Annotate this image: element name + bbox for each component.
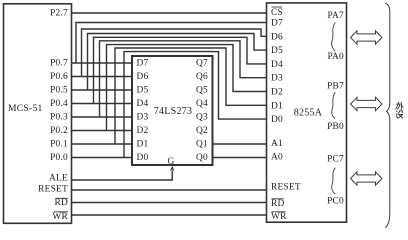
svg-text:D6: D6 [271, 32, 283, 42]
svg-text:RD: RD [271, 199, 285, 209]
svg-text:D5: D5 [271, 46, 283, 56]
wire data bus bit6 branch P0.6 to 8255A D6 [82, 29, 267, 77]
peripheral text she (Chinese) [396, 111, 403, 119]
wire data bus bit4 branch P0.4 to 8255A D4 [94, 37, 267, 103]
svg-text:A1: A1 [271, 139, 283, 149]
wire P0.4 to D4 (latch) [72, 103, 133, 105]
port C bidirectional bus arrow [351, 172, 383, 185]
svg-text:D4: D4 [137, 99, 149, 109]
svg-text:ALE: ALE [49, 174, 68, 184]
svg-text:Q4: Q4 [196, 99, 208, 109]
svg-text:P0.4: P0.4 [50, 99, 68, 109]
svg-text:D7: D7 [271, 19, 283, 29]
wire P2.7 to CS net [72, 12, 267, 14]
svg-text:Q7: Q7 [196, 59, 208, 69]
wire P0.7 to D7 (latch) [72, 62, 133, 64]
wire P0.0 to D0 (latch) [72, 157, 133, 159]
svg-text:D5: D5 [137, 86, 149, 96]
svg-text:Q3: Q3 [196, 113, 208, 123]
arrowhead of ALE into G pin [170, 166, 174, 171]
svg-text:P0.2: P0.2 [50, 126, 68, 136]
svg-text:D2: D2 [137, 126, 149, 136]
svg-text:D1: D1 [137, 140, 149, 150]
svg-text:PB7: PB7 [327, 82, 344, 92]
svg-text:P0.7: P0.7 [50, 59, 68, 69]
svg-text:Q1: Q1 [196, 140, 208, 150]
svg-text:D0: D0 [137, 153, 149, 163]
IC U3 8255A box [267, 3, 347, 222]
wire RD net [72, 202, 267, 204]
wire data bus bit0 branch P0.0 to 8255A D0 [124, 52, 267, 158]
svg-text:P0.6: P0.6 [50, 72, 68, 82]
svg-text:A0: A0 [271, 153, 283, 163]
svg-text:WR: WR [271, 212, 287, 222]
svg-text:P2.7: P2.7 [50, 9, 68, 19]
svg-text:8255A: 8255A [294, 108, 323, 119]
svg-text:P0.5: P0.5 [50, 86, 68, 96]
wire ALE to G clock [72, 171, 173, 181]
port PA range squiggle [332, 22, 336, 51]
svg-text:74LS273: 74LS273 [154, 106, 192, 117]
svg-text:PA0: PA0 [327, 52, 344, 62]
wire Q1 to A1 [213, 143, 267, 145]
svg-text:RESET: RESET [38, 185, 68, 195]
svg-text:RD: RD [54, 198, 68, 208]
wire P0.2 to D2 (latch) [72, 130, 133, 132]
IC U2 74LS273 box [132, 56, 213, 165]
wire RESET net [72, 189, 267, 191]
wire P0.3 to D3 (latch) [72, 116, 133, 118]
port PC range squiggle [332, 168, 336, 194]
svg-text:D3: D3 [271, 74, 283, 84]
wire Q0 to A0 [213, 157, 267, 159]
svg-text:D2: D2 [271, 88, 283, 98]
wire data bus bit3 branch P0.3 to 8255A D3 [100, 41, 267, 117]
wire WR net [72, 214, 267, 216]
port PB range squiggle [332, 92, 336, 118]
svg-text:MCS-51: MCS-51 [8, 103, 43, 114]
svg-text:D6: D6 [137, 72, 149, 82]
wire P0.6 to D6 (latch) [72, 76, 133, 78]
svg-text:P0.0: P0.0 [50, 153, 68, 163]
wire P0.1 to D1 (latch) [72, 143, 133, 145]
svg-text:PB0: PB0 [327, 122, 344, 132]
svg-text:G: G [167, 157, 174, 167]
svg-text:PC0: PC0 [327, 197, 344, 207]
svg-text:RESET: RESET [271, 183, 301, 193]
wire data bus bit2 branch P0.2 to 8255A D2 [107, 45, 267, 131]
svg-text:D4: D4 [271, 60, 283, 70]
peripheral text wai (Chinese) [396, 102, 403, 110]
svg-text:CS: CS [271, 8, 283, 18]
svg-text:D0: D0 [271, 115, 283, 125]
port B bidirectional bus arrow [351, 97, 383, 110]
svg-text:Q6: Q6 [196, 72, 208, 82]
svg-text:PC7: PC7 [327, 155, 344, 165]
svg-text:Q5: Q5 [196, 86, 208, 96]
svg-text:D1: D1 [271, 101, 283, 111]
svg-text:Q0: Q0 [196, 153, 208, 163]
svg-text:P0.1: P0.1 [50, 140, 68, 150]
wire data bus bit1 branch P0.1 to 8255A D1 [115, 48, 267, 144]
wire data bus bit7 branch P0.7 to 8255A D7 [76, 23, 267, 64]
wire P0.5 to D5 (latch) [72, 89, 133, 91]
wire data bus bit5 branch P0.5 to 8255A D5 [88, 34, 267, 91]
svg-text:Q2: Q2 [196, 126, 208, 136]
svg-text:D7: D7 [137, 59, 149, 69]
svg-text:P0.3: P0.3 [50, 113, 68, 123]
svg-text:PA7: PA7 [327, 11, 344, 21]
IC U1 MCS-51 box [4, 4, 72, 224]
brace grouping peripheral side [385, 3, 390, 227]
svg-text:WR: WR [52, 212, 68, 222]
svg-text:D3: D3 [137, 113, 149, 123]
port A bidirectional bus arrow [351, 31, 383, 44]
